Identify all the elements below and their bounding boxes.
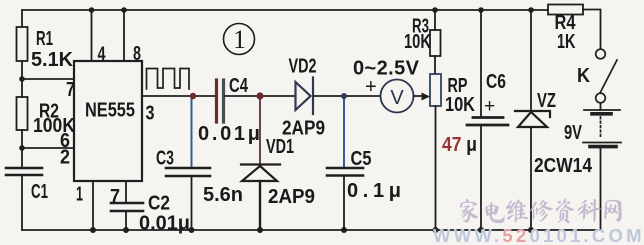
svg-text:7: 7 [110,186,120,208]
svg-text:3: 3 [146,103,155,125]
svg-text:NE555: NE555 [85,100,135,122]
svg-text:47 μ: 47 μ [442,134,477,156]
node dot C5 ground [341,227,347,233]
svg-text:+: + [484,96,495,117]
wire R4 to switch [583,10,601,50]
svg-text:4: 4 [98,44,107,66]
wire pin 4 drop [91,10,93,61]
wire R1 top [21,10,23,27]
svg-text:0~2.5V: 0~2.5V [353,58,420,80]
wire C4 to node B [225,95,260,97]
capacitor C5 [327,168,363,176]
wire C2 to ground [125,211,127,230]
node dot C6 rail [478,7,484,13]
square wave symbol [147,69,190,90]
circled number 1 [224,24,255,55]
svg-text:0.01μ: 0.01μ [198,123,260,145]
arrow to RP wiper [422,93,431,101]
wire node B to VD2 [260,95,295,97]
wire pin 8 drop [123,10,125,61]
svg-text:C3: C3 [156,148,174,170]
capacitor C1 [6,168,42,175]
svg-text:VZ: VZ [537,90,556,112]
svg-text:WWW.520101.COM: WWW.520101.COM [433,225,642,245]
node dot C4 VD1 VD2 [256,92,263,99]
zener diode VZ [515,111,550,127]
svg-text:1: 1 [233,25,246,54]
wire VZ drop [530,10,532,111]
svg-text:10K: 10K [445,94,475,116]
svg-text:C1: C1 [31,181,48,203]
capacitor C6 [467,118,508,126]
wire voltmeter to RP arrow [414,95,424,97]
wire R1 bottom to node [21,61,23,97]
wire switch to battery [600,103,602,110]
wire C5 drop [343,96,345,168]
svg-text:C4: C4 [229,75,249,97]
wire RP to ground [435,106,437,230]
node dot pin8 rail [121,7,127,13]
wire node C to voltmeter [344,95,381,97]
resistor R1 [17,27,28,61]
svg-text:+: + [365,76,377,98]
capacitor C2 [111,203,143,211]
wire bottom ground rail [22,229,601,231]
svg-text:1K: 1K [557,31,576,53]
node dot pin4 rail [89,7,95,13]
svg-text:0.1μ: 0.1μ [347,180,401,202]
svg-text:5.1K: 5.1K [31,49,74,71]
wire pin 5 to C2 [125,181,127,203]
resistor R3 [430,30,441,56]
wire C5 to ground [343,176,345,231]
potentiometer RP [430,74,441,106]
svg-text:5.6n: 5.6n [203,184,243,206]
wire C6 to ground [480,125,482,230]
wire C3 drop [191,96,193,168]
capacitor C3 [166,168,210,176]
wire VZ to ground [530,127,532,230]
node dot C6 ground [478,227,484,233]
node dot R3 rail [432,7,438,13]
wire C3 to ground [191,176,193,230]
wire VD1 drop [259,96,261,164]
svg-text:2: 2 [60,147,70,169]
wire VD1 to ground [259,181,261,230]
svg-text:10K: 10K [404,31,431,53]
node dot pin3 C4 C3 [190,93,196,99]
node dot R2 C1 pins 6 2 [19,145,25,151]
node dot VD2 C5 [341,93,347,99]
svg-text:V: V [390,87,404,109]
wire R3 to RP [434,56,436,74]
wire R3 top [434,10,436,30]
switch K terminals [596,49,606,103]
node dot VD1 ground [257,227,263,233]
wire C1 to ground rail [21,175,23,230]
svg-text:9V: 9V [564,122,582,144]
node dot VZ ground [528,227,534,233]
wire R2 bottom to C1 [21,130,23,168]
wire pin 7 connection [22,78,74,80]
wire top rail [22,9,548,11]
node dot VZ rail [528,7,534,13]
node dot C2 ground [123,227,129,233]
node dot RP ground [433,227,439,233]
wire pin 3 output [142,95,193,97]
svg-text:VD1: VD1 [266,136,294,158]
diode VD2 [296,78,314,115]
svg-text:R1: R1 [36,28,53,50]
svg-text:C6: C6 [486,71,506,93]
node dot pin1 ground [90,227,96,233]
switch K blade [600,60,617,93]
wire C6 drop [480,10,482,117]
wire pins 6-2 connection [22,147,74,149]
resistor R4 [548,5,583,15]
node dot C3 ground [189,227,195,233]
wire VD2 to node C [314,95,344,97]
svg-text:0.01μ: 0.01μ [139,213,190,235]
svg-text:2CW14: 2CW14 [534,155,593,177]
capacitor C4 [217,80,224,122]
battery B1 9V [583,110,621,147]
node dot R1 R2 pin7 [19,76,25,82]
voltmeter V [381,80,414,113]
svg-text:1: 1 [76,184,83,206]
resistor R2 [17,97,28,130]
svg-text:2AP9: 2AP9 [268,186,315,208]
svg-text:C5: C5 [351,148,372,170]
IC U1 NE555 box [74,61,142,181]
svg-text:8: 8 [133,43,141,65]
diode VD1 [241,165,280,182]
svg-text:C2: C2 [148,193,170,215]
svg-text:7: 7 [66,79,75,101]
wire pin 1 to ground [92,181,94,230]
wire battery to ground rail [600,148,602,230]
wire node A to C4 [193,95,215,97]
watermark chinese text [460,198,622,223]
svg-text:K: K [577,65,590,87]
svg-text:VD2: VD2 [289,56,317,78]
